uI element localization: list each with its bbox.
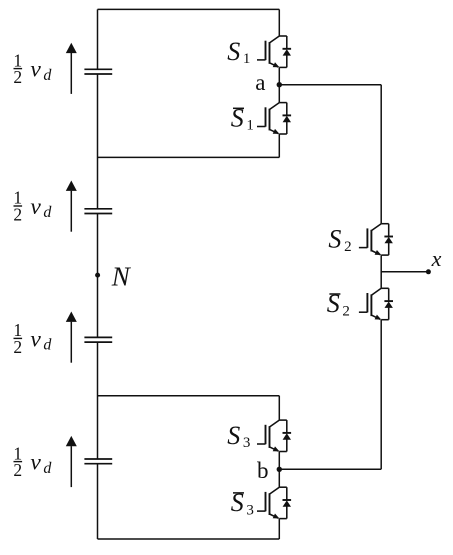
- wire: bottom cell right drop to S3 collector: [278, 396, 280, 420]
- label S1bar: [231, 104, 254, 134]
- svg-text:a: a: [255, 70, 265, 95]
- svg-text:2: 2: [13, 460, 22, 480]
- svg-text:S: S: [328, 225, 341, 254]
- wire: top cell right drop to S1 collector: [278, 9, 280, 36]
- voltage arrow 3 (up): [66, 312, 77, 363]
- transistor S2 (IGBT with antiparallel diode): [359, 224, 393, 255]
- label 1/2 vd (first): [13, 50, 52, 87]
- svg-text:d: d: [43, 67, 52, 84]
- label S3: [227, 421, 250, 451]
- wire: top cell bottom horizontal back to left bus: [98, 156, 280, 158]
- label 1/2 vd (third): [13, 320, 52, 357]
- wire: top dc-bus horizontal: [98, 8, 280, 10]
- svg-text:S: S: [227, 421, 240, 450]
- svg-text:v: v: [30, 57, 41, 83]
- wire: bottom dc-bus horizontal: [98, 538, 280, 540]
- wire: node b to right column: [279, 468, 381, 470]
- wire: tap to output node x: [381, 271, 428, 273]
- capacitor C4 (bottom, 1/2 vd): [84, 459, 112, 464]
- svg-text:b: b: [257, 458, 269, 483]
- svg-text:N: N: [111, 261, 132, 291]
- node b junction dot: [277, 467, 282, 472]
- wire: S1bar emitter down to bottom of top cell: [278, 134, 280, 157]
- svg-text:v: v: [30, 450, 41, 476]
- svg-text:2: 2: [342, 303, 350, 319]
- node x terminal dot: [426, 269, 431, 274]
- svg-text:3: 3: [246, 502, 254, 518]
- svg-text:v: v: [30, 194, 41, 220]
- transistor S3 (IGBT with antiparallel diode): [257, 420, 291, 451]
- svg-text:1: 1: [243, 51, 251, 67]
- svg-text:3: 3: [243, 435, 251, 451]
- svg-text:d: d: [43, 460, 52, 477]
- svg-text:2: 2: [344, 239, 352, 255]
- wire: right column down to S2 collector: [380, 85, 382, 224]
- wire: S2bar emitter down to node b level: [380, 320, 382, 470]
- svg-text:d: d: [43, 204, 52, 221]
- capacitor C2: [84, 209, 112, 214]
- voltage arrow 1 (up): [66, 43, 77, 94]
- svg-text:1: 1: [246, 118, 254, 134]
- wire: S1 emitter to node a to S1bar collector: [278, 67, 280, 102]
- voltage arrow 2 (up): [66, 181, 77, 232]
- wire: left bus segment C1 to C2: [97, 74, 99, 209]
- svg-text:v: v: [30, 326, 41, 352]
- wire: left bus segment below C4: [97, 464, 99, 540]
- transistor S3bar (IGBT with antiparallel diode): [257, 487, 291, 518]
- wire: S3bar emitter down to bottom bus: [278, 519, 280, 539]
- wire: left bus segment C3 to C4: [97, 343, 99, 459]
- transistor S2bar (IGBT with antiparallel diode): [359, 288, 393, 319]
- label 1/2 vd (fourth): [13, 443, 52, 480]
- wire: node a to right column: [279, 84, 381, 86]
- svg-text:2: 2: [13, 205, 22, 225]
- node a junction dot: [277, 82, 282, 87]
- label 1/2 vd (second): [13, 188, 52, 225]
- wire: left bus segment above capacitor C1: [97, 9, 99, 69]
- voltage arrow 4 (up): [66, 436, 77, 487]
- node N junction dot: [95, 273, 100, 278]
- label S2: [328, 225, 351, 255]
- svg-text:2: 2: [13, 67, 22, 87]
- label S2bar: [327, 289, 350, 319]
- svg-text:x: x: [431, 246, 442, 271]
- wire: S3 emitter to node b to S3bar collector: [278, 452, 280, 488]
- transistor S1 (IGBT with antiparallel diode): [257, 36, 291, 67]
- wire: left bus segment C2 through node N to C3: [97, 213, 99, 337]
- svg-text:S: S: [227, 37, 240, 66]
- capacitor C3: [84, 337, 112, 342]
- transistor S1bar (IGBT with antiparallel diode): [257, 103, 291, 134]
- label S3bar: [231, 488, 254, 518]
- wire: bottom cell top horizontal: [98, 395, 280, 397]
- svg-text:d: d: [43, 337, 52, 354]
- label S1: [227, 37, 250, 67]
- capacitor C1 (top, 1/2 vd): [84, 69, 112, 74]
- wire: S2 emitter to S2bar collector through x tap: [380, 255, 382, 288]
- svg-text:2: 2: [13, 337, 22, 357]
